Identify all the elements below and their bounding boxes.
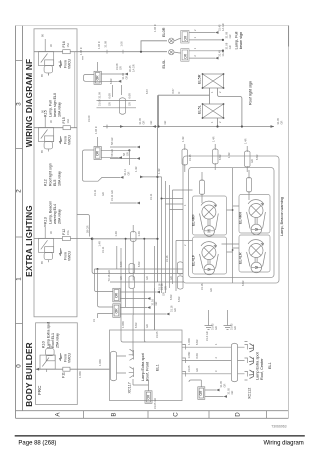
svg-text:1: 1 <box>183 204 187 206</box>
svg-text:F12: F12 <box>62 229 66 235</box>
svg-text:1: 1 <box>193 47 197 49</box>
fuse F16 <box>63 50 70 54</box>
wire mid vertical 4 <box>143 239 145 285</box>
svg-text:Lamp Extra spot: Lamp Extra spot <box>141 352 145 381</box>
svg-text:R: R <box>177 92 181 94</box>
lamp unit box roof front <box>110 330 183 401</box>
connector pill zone1 right upper <box>178 262 184 274</box>
svg-text:TX.16 GR: TX.16 GR <box>107 270 111 282</box>
svg-text:GR: GR <box>125 152 129 156</box>
arrow into FRC <box>36 368 40 371</box>
svg-text:1.4R: 1.4R <box>227 152 231 158</box>
svg-text:1: 1 <box>214 343 218 345</box>
svg-text:2: 2 <box>218 121 222 123</box>
svg-text:XC117: XC117 <box>128 382 132 393</box>
svg-text:VMCU: VMCU <box>68 58 72 69</box>
svg-text:D: D <box>235 412 242 417</box>
lamp box EL5R <box>203 74 224 88</box>
wire stub verticals zone3 <box>113 85 122 97</box>
arrow terminal EL5 ground left <box>120 125 124 128</box>
svg-text:31.05: 31.05 <box>155 331 159 338</box>
wire K13 feed continue <box>92 239 183 274</box>
svg-text:10A: 10A <box>66 119 70 124</box>
connector pill zone3 bus <box>120 98 126 115</box>
frame bottom strip lines <box>16 411 289 419</box>
wire mid vertical 1 <box>116 246 118 269</box>
svg-text:3: 3 <box>16 102 23 106</box>
arrow terminal zone2 out <box>119 156 123 159</box>
connector OR EL0L <box>181 49 189 62</box>
lamp box EL5L <box>203 104 224 118</box>
svg-text:2: 2 <box>193 55 197 57</box>
svg-text:20A relay: 20A relay <box>58 209 62 224</box>
svg-text:85: 85 <box>40 261 44 264</box>
wire mid vertical 3 <box>132 225 134 315</box>
svg-text:1.4R: 1.4R <box>98 241 102 247</box>
wires into roof front box <box>121 284 154 356</box>
svg-text:58 GR: 58 GR <box>110 149 114 157</box>
svg-text:EL4LR: EL4LR <box>239 252 243 264</box>
wire K12 branch down <box>77 215 90 237</box>
svg-text:6.67: 6.67 <box>171 88 175 94</box>
svg-text:31.11: 31.11 <box>149 193 153 200</box>
fuse F12 <box>62 237 70 241</box>
label terminal zone1 upper <box>107 270 167 290</box>
svg-text:15A: 15A <box>66 43 70 48</box>
wire mid vertical 5 <box>153 246 155 330</box>
wire EL0L OR out upper <box>189 50 223 52</box>
svg-text:1: 1 <box>210 91 214 93</box>
labels front to center wires <box>187 338 218 372</box>
svg-text:6.6R: 6.6R <box>218 154 222 160</box>
corner dots EL5L <box>202 103 225 119</box>
arrow into junction bus main <box>153 125 157 128</box>
svg-text:GR: GR <box>145 276 149 280</box>
svg-text:Lamp, Full: Lamp, Full <box>235 31 239 49</box>
connector OR zone2 <box>94 147 101 160</box>
beacon unit box EL4LR <box>239 235 270 272</box>
label terminal EL0R upper <box>193 23 225 31</box>
svg-text:6.6R: 6.6R <box>195 339 199 345</box>
svg-text:1.06R: 1.06R <box>78 371 82 378</box>
arrow terminal EL5 ground right <box>271 125 275 128</box>
connector OR zone1 lower <box>113 304 120 318</box>
svg-text:C: C <box>173 412 180 417</box>
svg-text:31.11 GR: 31.11 GR <box>110 190 114 201</box>
module box FRC <box>36 323 78 405</box>
wire OR zone1 lower feed <box>98 269 113 318</box>
svg-text:0: 0 <box>16 364 23 368</box>
fuse F15 <box>63 126 71 130</box>
svg-text:OR: OR <box>146 394 150 399</box>
relay K12 <box>39 115 54 152</box>
svg-text:M: M <box>207 229 212 233</box>
spot lamp symbols front <box>129 349 134 378</box>
svg-text:1.4R: 1.4R <box>181 136 185 142</box>
label terminal bottom right <box>219 380 234 394</box>
wire ticks main feed <box>107 50 123 54</box>
svg-text:86: 86 <box>41 34 45 37</box>
relay K12 pin labels <box>40 110 53 153</box>
connector OR zone1 upper <box>113 288 120 302</box>
svg-text:OR: OR <box>114 292 118 298</box>
wire K13 feed <box>34 238 92 240</box>
label K13 desc <box>49 201 62 224</box>
label ground right <box>230 323 237 330</box>
svg-text:F16: F16 <box>62 41 66 47</box>
beacon unit box EL4RF <box>193 196 227 235</box>
junction bus main <box>157 125 159 127</box>
svg-text:6.6R: 6.6R <box>177 296 181 302</box>
wire EL0R OR out lower <box>189 39 223 41</box>
wire inner column <box>74 52 76 128</box>
junction bundle <box>161 198 163 200</box>
svg-text:31.4 GR: 31.4 GR <box>205 331 209 341</box>
svg-text:EL1: EL1 <box>268 362 272 369</box>
svg-text:GR: GR <box>128 102 132 106</box>
svg-text:GR: GR <box>230 390 234 394</box>
wire OR zone3 out <box>101 73 124 75</box>
connector pill beacon top mid <box>213 149 219 164</box>
svg-text:GR: GR <box>126 171 130 175</box>
beacon EL4LF <box>200 242 219 275</box>
wire EL4RF drop <box>202 170 249 203</box>
label K12 desc <box>49 163 62 186</box>
beacon EL4RR <box>247 200 266 235</box>
svg-text:Lamp Extra spot: Lamp Extra spot <box>256 351 260 380</box>
svg-text:31: 31 <box>92 319 96 322</box>
svg-text:GR: GR <box>173 308 177 312</box>
wire OR zone1 upper out <box>120 292 156 299</box>
connector pill K13 bus <box>131 231 137 241</box>
arrow terminal bottom right <box>216 389 220 392</box>
junction zone1 rows <box>97 268 99 270</box>
wire EL0R to OR <box>174 39 181 41</box>
svg-text:10A relay: 10A relay <box>58 102 62 117</box>
connector OR EL0R <box>181 31 189 44</box>
svg-text:VMCU: VMCU <box>68 352 72 363</box>
svg-text:1.06 R: 1.06 R <box>97 41 101 49</box>
svg-text:M: M <box>207 267 212 271</box>
relay K15 pin labels <box>40 34 53 77</box>
svg-text:EL1: EL1 <box>156 364 160 371</box>
svg-text:6.6R: 6.6R <box>255 154 259 160</box>
svg-text:25A relay: 25A relay <box>56 333 60 348</box>
wire EL0R OR out upper <box>189 32 215 34</box>
svg-text:31.16: 31.16 <box>200 283 204 290</box>
svg-text:1.06R: 1.06R <box>121 321 125 328</box>
arrow VMCU K12 <box>59 136 61 144</box>
svg-text:OR: OR <box>96 150 100 156</box>
svg-text:1.4R: 1.4R <box>134 166 138 172</box>
stub terminal row2 <box>110 158 137 160</box>
beacon EL4LR <box>247 240 266 273</box>
lamp EL0L <box>169 49 174 54</box>
connector XC112 pill <box>232 343 238 382</box>
svg-text:1.06R: 1.06R <box>187 351 191 358</box>
wire K15 feed <box>34 51 77 53</box>
connector OR bottom mid <box>145 391 152 404</box>
wire mid vertical 2 <box>125 239 127 307</box>
svg-text:F11: F11 <box>62 372 66 378</box>
labels zone3 bus <box>98 91 132 106</box>
lamp unit box roof center <box>238 347 245 374</box>
svg-text:6.6R: 6.6R <box>134 322 138 328</box>
wire OR zone1 upper feed <box>94 269 112 292</box>
frame right border <box>287 26 289 419</box>
svg-text:EL5: EL5 <box>53 180 57 186</box>
wire EL0 feed bus <box>77 41 167 52</box>
label terminal EL0L upper <box>193 42 232 49</box>
svg-text:15A: 15A <box>66 230 70 235</box>
wire K15 coil to VMCU <box>49 62 62 76</box>
svg-text:EL4RR: EL4RR <box>239 212 243 224</box>
svg-text:K13: K13 <box>44 217 48 224</box>
wire bundle into beacon area <box>158 177 184 293</box>
svg-text:30: 30 <box>49 231 53 234</box>
fuse F11 <box>63 367 70 371</box>
wire beacon feeds top <box>185 144 247 172</box>
svg-text:GR: GR <box>163 286 167 290</box>
svg-text:2: 2 <box>183 244 187 246</box>
svg-text:GR: GR <box>101 192 105 196</box>
label K10 desc <box>47 322 60 348</box>
junction beacon spine <box>232 209 234 211</box>
label ground left <box>211 323 218 330</box>
svg-text:2: 2 <box>16 189 23 193</box>
stub terminal row1 <box>110 146 137 148</box>
svg-text:GR: GR <box>141 120 145 124</box>
relay K13 <box>39 227 54 262</box>
svg-text:VMCU: VMCU <box>68 134 72 145</box>
svg-text:1.06R: 1.06R <box>98 359 102 366</box>
svg-text:1: 1 <box>16 277 23 281</box>
svg-text:WIRING DIAGRAM NF: WIRING DIAGRAM NF <box>25 59 34 147</box>
ground point right <box>224 319 232 330</box>
svg-text:31.11: 31.11 <box>101 246 105 253</box>
svg-text:B: B <box>111 412 118 416</box>
svg-text:Lamp, Full: Lamp, Full <box>49 100 53 117</box>
svg-text:F15: F15 <box>62 117 66 123</box>
svg-text:A: A <box>55 412 62 417</box>
svg-text:6.6R: 6.6R <box>108 93 112 99</box>
svg-text:GR: GR <box>250 159 254 163</box>
connector pill zone1 bus upper <box>129 263 135 273</box>
svg-text:GR: GR <box>149 120 153 124</box>
svg-text:beam sign EL0: beam sign EL0 <box>53 93 57 117</box>
spot lamp symbols center <box>249 344 254 379</box>
connector pill zone1 right lower <box>178 276 184 289</box>
svg-text:GR: GR <box>228 45 232 49</box>
labels beacon feeds <box>181 136 254 163</box>
beacon unit box EL4LF <box>193 237 227 274</box>
svg-text:30: 30 <box>49 120 53 123</box>
svg-text:OR: OR <box>184 35 188 40</box>
wire roof front pins <box>117 340 183 373</box>
labels EL5 ground wire <box>138 91 283 125</box>
connector XC117 pill <box>111 351 117 381</box>
arrow VMCU K13 <box>59 248 61 256</box>
svg-text:M: M <box>254 227 259 231</box>
lamp EL0R <box>169 38 174 43</box>
svg-text:Roof, Center: Roof, Center <box>260 358 264 380</box>
labels texture misc <box>87 63 259 302</box>
svg-text:OR: OR <box>96 75 100 81</box>
hooks XC112 <box>245 342 248 381</box>
zone dividers bottom <box>84 411 267 419</box>
beacon outer box 1 <box>183 156 279 283</box>
connector OR bottom right <box>198 387 205 400</box>
svg-text:58 GR: 58 GR <box>86 225 90 233</box>
svg-text:GR: GR <box>228 34 232 38</box>
label terminal EL0L lower <box>193 49 225 57</box>
svg-text:Roof light sign: Roof light sign <box>49 163 53 186</box>
zone dividers left <box>16 61 23 324</box>
label terminal EL0R lower <box>193 31 232 38</box>
svg-text:1.4R: 1.4R <box>114 231 118 237</box>
label EL5 feed <box>171 88 181 94</box>
svg-text:GR: GR <box>163 120 167 124</box>
corner dots EL5R <box>202 73 225 89</box>
svg-text:31.05: 31.05 <box>187 365 191 372</box>
relay K10 <box>40 344 55 372</box>
svg-text:10A relay: 10A relay <box>58 171 62 186</box>
wire EL0L to OR <box>174 51 181 54</box>
frame left strip lines <box>16 26 23 419</box>
wire OR bottom mid <box>148 380 150 391</box>
svg-text:GR: GR <box>108 102 112 106</box>
svg-text:warning EL4: warning EL4 <box>53 204 57 224</box>
svg-text:EL4RF: EL4RF <box>192 214 196 226</box>
wire OR zone1 lower out <box>120 308 166 315</box>
svg-text:1.06 R: 1.06 R <box>153 24 157 32</box>
svg-text:GR: GR <box>222 383 226 387</box>
module box cab electrics <box>34 29 77 317</box>
svg-text:31.09: 31.09 <box>98 99 102 106</box>
labels beacon bottom <box>158 283 174 300</box>
wire K12 feed <box>34 127 77 129</box>
svg-text:1.06: 1.06 <box>120 41 124 47</box>
ground point left <box>205 319 213 330</box>
wire main vertical bus <box>157 95 159 282</box>
svg-text:6.6R: 6.6R <box>109 78 113 84</box>
svg-text:1.4R: 1.4R <box>157 168 161 174</box>
svg-text:2: 2 <box>218 91 222 93</box>
junction EL5 ground <box>241 125 243 127</box>
arrow VMCU K15 <box>59 60 61 68</box>
labels bottom misc <box>78 321 209 409</box>
junction main bus row3 <box>156 176 158 178</box>
svg-text:1.06 R: 1.06 R <box>79 47 83 55</box>
svg-text:6.6R: 6.6R <box>195 353 199 359</box>
junction EL0L out <box>222 50 224 52</box>
svg-text:EL4LF: EL4LF <box>192 254 196 266</box>
svg-text:FRC: FRC <box>37 385 42 395</box>
wire EL5 ground <box>103 88 274 128</box>
relay K15 <box>39 39 54 76</box>
svg-text:OR: OR <box>199 390 203 395</box>
footer separator line <box>15 435 305 437</box>
label terminal zone2 loop <box>123 169 130 176</box>
svg-text:31.08: 31.08 <box>104 40 108 47</box>
svg-text:2: 2 <box>214 357 218 359</box>
beacon unit box EL4RR <box>239 195 270 234</box>
junction EL0 branch <box>140 51 142 53</box>
svg-text:VMCU: VMCU <box>68 250 72 261</box>
svg-text:Roof, Front: Roof, Front <box>146 361 150 381</box>
svg-text:OR: OR <box>184 53 188 58</box>
label K15 desc <box>49 93 62 117</box>
svg-text:6.67: 6.67 <box>145 88 149 94</box>
wire mid vertical 1b <box>120 248 122 330</box>
svg-text:GR: GR <box>233 326 237 330</box>
beacon EL4RF <box>200 201 219 236</box>
stub terminal row4 <box>110 202 137 204</box>
wires front to center <box>182 347 231 374</box>
label terminal zone1 lower <box>92 298 177 322</box>
svg-text:Page 88 (268): Page 88 (268) <box>18 441 56 447</box>
svg-text:85: 85 <box>40 74 44 77</box>
wire bottom bus <box>133 379 149 385</box>
frame right top dark segment <box>288 26 290 47</box>
svg-text:1.4R: 1.4R <box>137 231 141 237</box>
svg-text:31.05 GR: 31.05 GR <box>153 398 157 409</box>
svg-text:6.6R: 6.6R <box>169 294 173 300</box>
svg-text:GR: GR <box>118 66 122 70</box>
wire EL5 feed <box>159 88 210 127</box>
junction main bus at K13 row <box>156 238 158 240</box>
wire zone2 OR feed stub <box>98 137 130 165</box>
svg-text:GR: GR <box>214 326 218 330</box>
svg-text:2: 2 <box>193 29 197 31</box>
svg-text:EL5L: EL5L <box>198 105 202 114</box>
wire bus pair zone3 <box>97 100 137 107</box>
svg-text:M: M <box>254 265 259 269</box>
arrow terminal zone1 lower <box>147 306 151 309</box>
svg-text:1: 1 <box>210 121 214 123</box>
wire EL0L OR out lower <box>189 57 215 59</box>
svg-text:31.16: 31.16 <box>188 154 192 161</box>
svg-text:30: 30 <box>49 44 53 47</box>
connector pill beacon top left <box>182 149 188 165</box>
wire OR zone2 loop <box>83 150 121 181</box>
labels ticks main feed <box>104 40 124 47</box>
wire K10 feed <box>36 368 110 370</box>
svg-text:EL0R: EL0R <box>162 27 166 37</box>
svg-text:GR: GR <box>124 75 128 79</box>
arrow terminal EL0R upper <box>215 31 219 34</box>
wire beacon inner connects <box>173 190 240 291</box>
junction zone2 out <box>128 149 130 151</box>
arrow terminal zone1 upper <box>157 291 161 294</box>
connector pill EL4RF top <box>200 180 205 195</box>
svg-text:31.09: 31.09 <box>98 91 102 98</box>
relay K13 pin labels <box>40 224 53 264</box>
arrow terminal zone3 loop <box>118 80 122 83</box>
connector pill beacon top right <box>245 151 251 167</box>
svg-text:86: 86 <box>41 110 45 113</box>
stub terminal row3 <box>140 176 158 178</box>
svg-text:K12: K12 <box>44 179 48 186</box>
beacon outer box 2 <box>189 168 275 278</box>
svg-text:Roof EL1: Roof EL1 <box>51 333 55 348</box>
junction EL0R out <box>222 39 224 41</box>
label terminal zone3 out <box>128 64 135 72</box>
svg-text:3: 3 <box>214 370 218 372</box>
svg-text:beam sign: beam sign <box>239 32 243 50</box>
svg-text:EXTRA LIGHTING: EXTRA LIGHTING <box>25 205 34 277</box>
wire zone3 OR feed stub <box>83 56 98 71</box>
